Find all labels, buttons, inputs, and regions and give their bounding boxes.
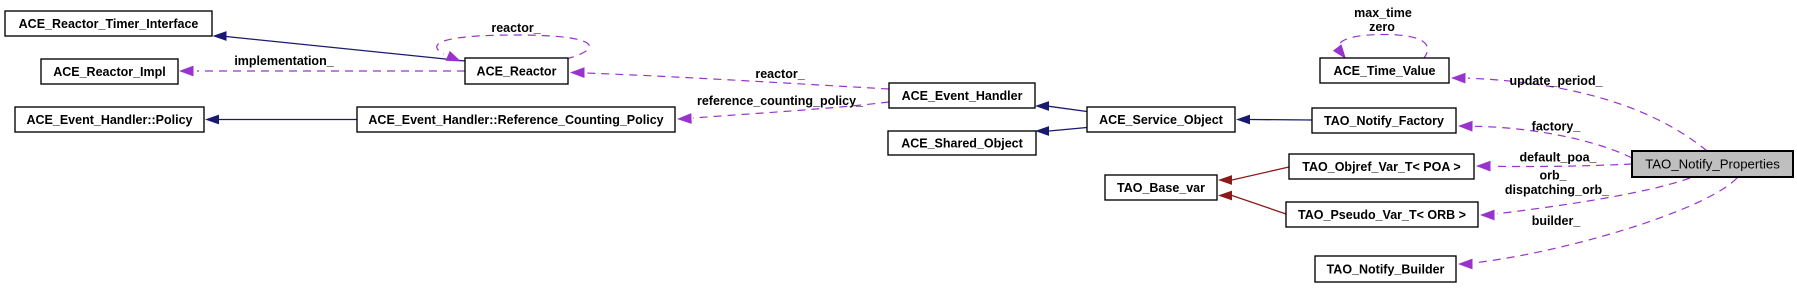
svg-text:update_period_: update_period_ [1509, 74, 1603, 88]
svg-text:TAO_Base_var: TAO_Base_var [1117, 181, 1205, 195]
svg-text:TAO_Notify_Properties: TAO_Notify_Properties [1645, 157, 1780, 172]
svg-text:orb_: orb_ [1539, 169, 1567, 183]
svg-text:TAO_Pseudo_Var_T< ORB >: TAO_Pseudo_Var_T< ORB > [1298, 208, 1466, 222]
svg-text:ACE_Service_Object: ACE_Service_Object [1099, 113, 1224, 127]
svg-text:reactor_: reactor_ [491, 21, 541, 35]
svg-text:zero: zero [1369, 20, 1395, 34]
svg-text:ACE_Reactor_Impl: ACE_Reactor_Impl [53, 65, 166, 79]
svg-text:reactor_: reactor_ [755, 67, 805, 81]
svg-text:TAO_Objref_Var_T< POA >: TAO_Objref_Var_T< POA > [1302, 160, 1460, 174]
svg-text:reference_counting_policy_: reference_counting_policy_ [697, 94, 864, 108]
svg-text:builder_: builder_ [1532, 214, 1582, 228]
svg-text:TAO_Notify_Builder: TAO_Notify_Builder [1327, 263, 1445, 277]
svg-text:implementation_: implementation_ [234, 54, 334, 68]
svg-text:TAO_Notify_Factory: TAO_Notify_Factory [1324, 114, 1444, 128]
svg-text:ACE_Shared_Object: ACE_Shared_Object [901, 137, 1023, 151]
svg-text:ACE_Reactor: ACE_Reactor [477, 65, 557, 79]
svg-text:ACE_Reactor_Timer_Interface: ACE_Reactor_Timer_Interface [19, 17, 199, 31]
svg-text:ACE_Event_Handler: ACE_Event_Handler [902, 89, 1023, 103]
svg-text:ACE_Event_Handler::Policy: ACE_Event_Handler::Policy [26, 113, 192, 127]
svg-text:factory_: factory_ [1532, 120, 1582, 134]
svg-text:default_poa_: default_poa_ [1519, 151, 1597, 165]
svg-text:ACE_Time_Value: ACE_Time_Value [1334, 64, 1436, 78]
svg-text:max_time: max_time [1354, 6, 1412, 20]
svg-text:ACE_Event_Handler::Reference_C: ACE_Event_Handler::Reference_Counting_Po… [368, 113, 663, 127]
svg-text:dispatching_orb_: dispatching_orb_ [1505, 183, 1610, 197]
